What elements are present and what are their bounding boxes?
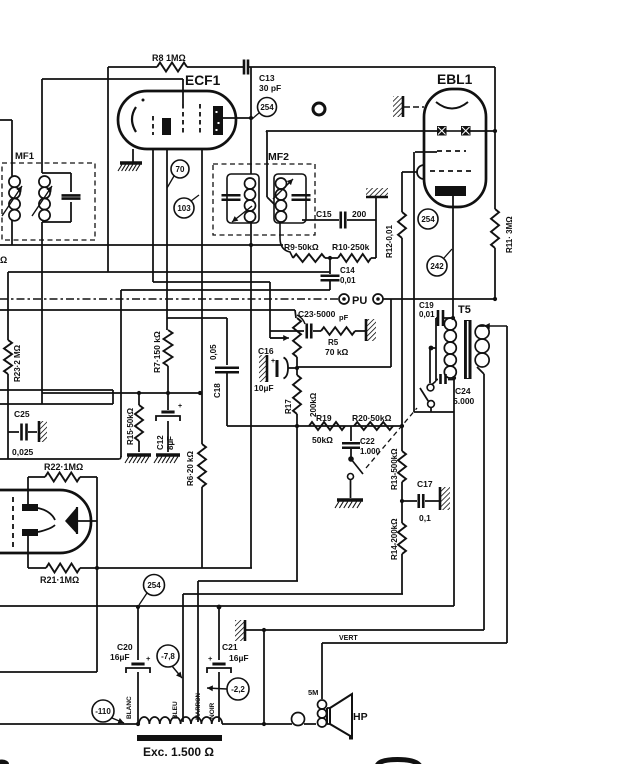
wire EBL1 screen rail y131 [266,130,437,132]
junction dots [249,243,253,247]
wire grid R7 y318 [167,317,227,319]
speaker HP cone [330,694,352,737]
svg-text:VERT: VERT [339,635,358,642]
resistor R15 50k [138,393,140,405]
svg-text:+: + [208,654,213,663]
speaker voice coil [318,700,327,709]
wire x415 EBL1 grid drop [413,152,415,410]
corner mark bottom left [0,760,9,764]
tube triode anode wedge [65,507,77,534]
transformer MF1 dashed box [2,163,95,240]
resistor R9 50k [293,254,325,262]
tube ECF1 grid dashes x153 [152,116,154,135]
tube triode envelope [0,490,91,553]
svg-text:0,01: 0,01 [340,276,356,285]
svg-text:10µF: 10µF [254,383,274,393]
node -7.8 circle [157,645,179,667]
transformer T5 secondary [475,325,489,339]
wire ECF1 anode out [223,117,251,119]
node 242 EBL1 circle [427,256,447,276]
resistor R14 200k [398,523,406,554]
svg-text:R5: R5 [328,338,339,347]
wire x121 vertical [120,290,122,457]
ground S1 [337,498,363,501]
capacitor C13 30pF [243,60,246,75]
wire switch feed bridge [430,347,436,349]
svg-text:R23·2 MΩ: R23·2 MΩ [13,344,22,382]
wire VERT speaker y643 [322,642,507,644]
node ring [313,103,325,115]
wire heater rail y606 [0,605,454,607]
wire x484 secondary down [477,367,484,374]
svg-text:NOIR: NOIR [209,702,216,719]
capacitor MF1 tank [42,172,71,174]
potentiometer R17 200k lower [293,375,301,414]
switch S2 [427,384,434,391]
svg-text:Ω: Ω [0,255,7,265]
node 103 circle [174,198,194,218]
wire bias y594 [183,593,403,595]
capacitor C14 0.01 [329,258,331,274]
chassis EBL1 heater hatch [393,96,403,117]
svg-text:5.000: 5.000 [453,396,475,406]
wire PU line y299 right [383,298,391,300]
svg-text:C22: C22 [360,437,375,446]
wire left bottom y672 [0,671,97,673]
wire AVC row B y404 [0,403,113,405]
wire C14 return y290 [121,289,330,291]
svg-text:-7,8: -7,8 [161,652,175,661]
svg-text:C19: C19 [419,301,434,310]
wire chassis rail y630 [247,629,484,631]
wire x298 volume chain [296,357,298,375]
resistor R8 1M [157,63,187,72]
svg-text:16µF: 16µF [110,652,130,662]
tube ECF1 grid dashes x183 [182,104,184,135]
svg-text:MF1: MF1 [15,151,35,162]
svg-text:C17: C17 [417,479,433,489]
ground ECF1 cathode [132,149,134,162]
svg-text:ECF1: ECF1 [185,73,221,88]
svg-text:C12: C12 [156,435,165,450]
resistor R7 150k [164,330,173,366]
tube ECF1 cathode arc [132,107,136,132]
wire MF2 grid entry x267 [266,132,268,197]
wire x270 audio drop [269,282,271,338]
wire PU line y299 left [0,298,339,300]
resistor R21 1M [27,536,29,568]
potentiometer R17 200k upper [293,318,301,357]
svg-text:200: 200 [352,209,366,219]
transformer output loop [292,713,305,726]
tube triode pin rects [22,504,38,511]
wire EBL1 anode down [452,196,454,318]
capacitor C12 8uF electrolytic [167,366,169,410]
svg-text:0,01: 0,01 [419,310,435,319]
wire BLEU x183 [182,594,184,722]
chassis hatch bottom [235,620,245,641]
wire T5 secondary top arrow [484,325,507,327]
capacitor C21 16uF [218,607,220,660]
wire HT top rail y67 [108,66,157,68]
dial arc bottom [377,760,420,764]
wire MARRON x198 [197,581,199,722]
node 254 bottom circle [144,575,165,596]
svg-text:+: + [178,403,182,410]
wire HT bottom y724 [0,723,139,725]
svg-text:T5: T5 [458,304,471,316]
wire x454 anode down [453,378,455,606]
tube EBL1 envelope [424,89,486,207]
choke Exc 1500 ohm [139,717,222,724]
switch S1 tone [348,456,354,462]
tube EBL1 grid1 dashes [437,150,466,152]
svg-text:70 kΩ: 70 kΩ [325,347,349,357]
svg-text:EBL1: EBL1 [437,72,473,87]
tube ECF1 anode rect [213,106,223,135]
svg-text:R21·1MΩ: R21·1MΩ [40,575,79,585]
wire row y459 [0,458,119,460]
capacitor C20 16uF [137,606,139,660]
capacitor MF2 secondary tank [292,194,311,197]
svg-text:C25: C25 [14,409,30,419]
resistor R12 0.01M [398,212,406,238]
transformer T5 core [464,320,472,379]
svg-text:254: 254 [260,103,274,112]
node -110 circle [92,700,114,722]
tube triode lead curves [38,508,55,520]
chassis R10 top hatch [366,188,388,197]
svg-text:C21: C21 [222,642,238,652]
wire R5 box bottom [390,299,392,367]
capacitor C24 5000 [436,379,438,381]
tube ECF1 envelope [118,91,236,149]
wire AVC bracket x113 [112,390,114,404]
svg-text:Exc. 1.500 Ω: Exc. 1.500 Ω [143,745,214,759]
svg-text:MF2: MF2 [268,151,289,163]
wire AVC bus y272 [8,271,330,273]
wire x8 R23 C25 drop [7,272,9,340]
capacitor C18 0.05 [226,318,228,365]
node 254 top circle [258,98,277,117]
svg-text:R7·150 kΩ: R7·150 kΩ [152,331,162,373]
capacitor MF2 primary tank [222,194,241,197]
svg-text:0,05: 0,05 [209,344,218,360]
svg-text:R11· 3MΩ: R11· 3MΩ [505,216,514,253]
svg-text:pF: pF [339,313,349,322]
wire switch bottom y412 [414,411,454,413]
wire x183 ECF1 grid drop [182,79,184,104]
node 70 circle [171,160,189,178]
svg-text:R9·50kΩ: R9·50kΩ [284,242,319,252]
arrow MF1 secondary tuning [32,186,52,216]
node PU pickup terminals [339,294,349,304]
tube EBL1 grid3 dashes [430,170,472,172]
inductor MF2 primary [227,174,259,223]
wire grid feed y79 [42,78,183,80]
resistor R5 70k [321,327,355,335]
wire cathode rail y568 [80,567,252,569]
transformer T5 primary [444,318,456,330]
svg-text:0,1: 0,1 [419,513,431,523]
wire R12 top to side cap [402,171,417,173]
inductor MF2 secondary [274,174,306,223]
svg-text:C24: C24 [455,386,471,396]
wire R10 to screen ground [371,257,376,259]
wire volume top y310 [0,309,295,311]
svg-text:-2,2: -2,2 [231,685,245,694]
wire x202 below R6 [201,487,203,568]
wire tone y426 [227,425,401,427]
svg-text:254: 254 [147,581,161,590]
resistor R6 20k [198,444,206,487]
transformer MF2 dashed box [213,164,315,235]
wire x252 HT to MF2 [250,67,252,174]
capacitor C15 200 [302,219,339,221]
wire AVC bus y245 [0,244,283,246]
svg-text:C13: C13 [259,73,275,83]
svg-text:R13-500kΩ: R13-500kΩ [390,448,399,490]
svg-text:R20·50kΩ: R20·50kΩ [352,413,392,423]
dashed link S1-S2 [366,408,417,468]
wire left vertical x42 [41,79,43,173]
tube EBL1 anode bar [435,186,466,196]
svg-text:C20: C20 [117,642,133,652]
svg-text:+: + [271,358,275,365]
tube EBL1 side cap bump [417,165,424,179]
resistor R23 2M [4,340,12,374]
svg-text:16µF: 16µF [229,653,249,663]
wire AVC row C y393 [42,392,200,394]
wire x97 triode right [96,477,98,672]
svg-text:R15·50kΩ: R15·50kΩ [126,407,135,445]
wire MF1 antenna top y120 [0,119,12,121]
arrow R17 wiper [270,337,289,339]
svg-text:R14-200kΩ: R14-200kΩ [390,518,399,560]
wire x495 screen rail [494,67,496,209]
svg-text:PU: PU [352,295,367,307]
svg-text:C23·5000: C23·5000 [298,309,336,319]
svg-text:8µF: 8µF [166,436,175,450]
chassis R5 hatch [366,319,376,341]
svg-text:C14: C14 [340,266,355,275]
wire x322 to speaker [321,643,323,699]
node 254 EBL1 circle [418,209,438,229]
arrow MF2 primary tuning [232,206,252,222]
node -2.2 circle [227,678,249,700]
wire C19 switch chain [436,317,438,319]
resistor R13 500k [398,451,406,482]
wire AVC row A y390 [0,389,113,391]
arrow MF1 primary tuning [2,186,22,216]
tube EBL1 heater arc [436,102,468,109]
svg-text:R19: R19 [316,413,332,423]
svg-text:-110: -110 [95,707,111,716]
svg-text:C16: C16 [258,346,274,356]
wire x167 pin to R7 [166,149,168,330]
resistor R20 50k [354,422,393,430]
svg-text:C15: C15 [316,209,332,219]
capacitor C22 1000 [350,426,352,441]
svg-text:5M: 5M [308,688,318,697]
tube triode electrode dashes [12,497,14,547]
inductor MF1 secondary L2 [39,176,50,187]
svg-text:30 pF: 30 pF [259,83,281,93]
svg-text:R22·1MΩ: R22·1MΩ [44,462,83,472]
tube EBL1 screen squares [437,126,447,136]
svg-text:R10·250k: R10·250k [332,242,370,252]
svg-text:MARRON: MARRON [196,693,202,720]
resistor R22 1M [27,477,29,504]
svg-text:BLANC: BLANC [126,696,133,719]
wire x264 chassis drop [263,630,265,724]
svg-text:R17: R17 [284,399,293,414]
svg-text:HP: HP [353,711,368,723]
wire EBL1 grid1 out [415,151,437,153]
stray mark [349,735,353,740]
resistor R11 3M [491,209,499,248]
arrow MF2 secondary tuning [273,179,293,199]
wire x402 R12 chain [401,172,403,212]
svg-text:+: + [146,654,151,663]
svg-text:C18: C18 [213,383,222,398]
inductor MF1 primary L1 [9,176,20,187]
svg-text:R6·20 kΩ: R6·20 kΩ [186,451,195,486]
resistor R10 250k [325,257,338,259]
wire MF2 secondary bottom to R9 [280,223,293,258]
wire x202 pin to R6 [201,149,203,444]
svg-text:254: 254 [421,215,435,224]
wire x153 detector [152,149,154,282]
svg-text:103: 103 [177,204,191,213]
tube ECF1 grid dashes x200 [199,104,201,135]
tube ECF1 electrode rect [162,118,171,135]
resistor R19 50k [309,422,345,430]
wire triode anode out [77,520,97,522]
wire detector out y282 [153,281,270,283]
wire x507 speaker hot [506,326,508,643]
wire bias y581 [198,580,298,582]
svg-text:242: 242 [430,262,444,271]
svg-text:70: 70 [176,165,185,174]
svg-text:50kΩ: 50kΩ [312,435,333,445]
wire vertical x108 [107,67,109,272]
svg-text:0,025: 0,025 [12,447,34,457]
svg-text:R​8 1MΩ: R​8 1MΩ [152,53,186,63]
svg-text:R12-0,01: R12-0,01 [385,225,394,258]
